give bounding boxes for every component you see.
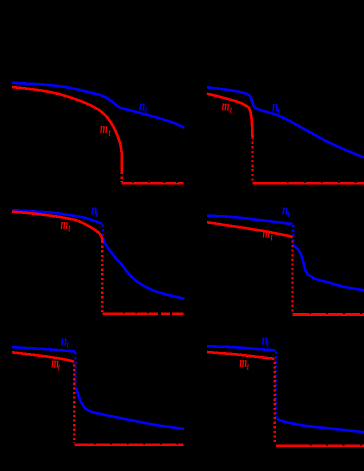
- BR blue dotted drop: [275, 352, 277, 418]
- ML red curve m_t: [12, 212, 102, 241]
- svg-text:m: m: [61, 216, 69, 233]
- MR label m_t: [263, 225, 274, 243]
- MR floor tick notches: [310, 313, 362, 314]
- TL blue curve n_t: [12, 83, 184, 128]
- svg-text:m: m: [100, 120, 108, 137]
- BL red dashed drop: [73, 362, 75, 443]
- TR red dotted drop: [251, 137, 253, 182]
- BR label m_t: [239, 354, 249, 372]
- MR red floor: [293, 313, 364, 316]
- TR red floor: [253, 182, 364, 185]
- ML blue tail: [103, 238, 185, 299]
- ML label n_t: [91, 201, 98, 219]
- TL label m_t: [100, 120, 111, 138]
- ML floor tick notches: [124, 312, 173, 316]
- svg-text:m: m: [263, 225, 271, 242]
- TL red floor: [122, 182, 184, 185]
- TL floor tick notches: [132, 182, 178, 183]
- MR blue dotted drop: [292, 225, 294, 245]
- TR label m_t: [222, 97, 233, 115]
- BL blue dotted drop: [74, 353, 76, 387]
- BL red floor: [74, 443, 183, 446]
- BR red floor: [276, 444, 364, 447]
- BR red dashed drop: [274, 360, 276, 445]
- MR label n_t: [282, 201, 290, 220]
- BR blue tail: [277, 419, 364, 433]
- TR floor tick notches: [287, 182, 356, 183]
- TL red curve m_t: [12, 87, 122, 172]
- TR label n_t: [272, 98, 280, 117]
- BL blue tail: [76, 388, 184, 429]
- TR blue curve n_t: [207, 87, 364, 157]
- ML red floor: [102, 312, 183, 315]
- BL floor tick notches: [94, 443, 178, 444]
- TR red curve m_t: [207, 94, 253, 137]
- TL red dotted drop: [121, 172, 123, 182]
- BL label m_t: [51, 355, 60, 373]
- BL red curve m_t: [12, 352, 74, 361]
- MR blue tail: [294, 245, 364, 290]
- BR blue curve n_t: [207, 346, 276, 350]
- MR red curve m_t: [207, 222, 292, 237]
- BR red curve m_t: [207, 352, 275, 359]
- ML blue curve n_t: [12, 210, 102, 224]
- svg-text:m: m: [239, 354, 247, 371]
- BR floor tick notches: [310, 444, 362, 446]
- BL blue curve n_t: [12, 347, 75, 352]
- MR blue curve n_t: [207, 216, 293, 224]
- ML red dashed drop: [101, 241, 103, 312]
- BL label n_t: [61, 332, 69, 350]
- TL label n_t: [139, 97, 148, 116]
- ML blue dotted drop: [102, 225, 104, 238]
- MR red dashed drop: [291, 238, 293, 313]
- svg-text:m: m: [222, 97, 230, 114]
- ML label m_t: [61, 216, 71, 234]
- BR label n_t: [262, 331, 270, 349]
